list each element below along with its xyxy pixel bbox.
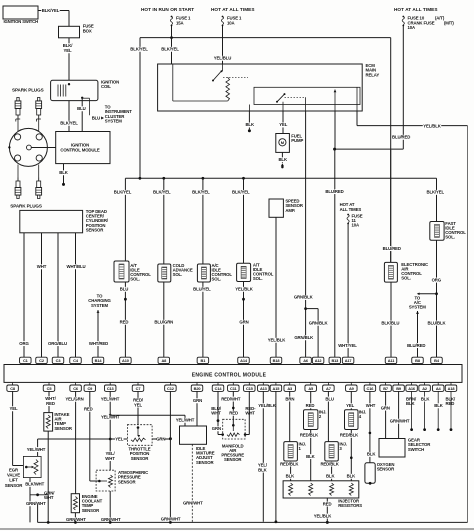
wire drop2 BLK/YEL to cold advance sol (153, 178, 171, 264)
svg-text:SOL.: SOL. (401, 276, 411, 281)
svg-text:WHT/YEL: WHT/YEL (338, 343, 357, 348)
connector A4 (432, 382, 444, 391)
wire TDC-1 ORG to C1 (19, 233, 29, 357)
svg-text:GRN: GRN (156, 437, 165, 442)
svg-text:C11: C11 (230, 386, 237, 391)
wire coolant sensor GRN/WHT to bus (66, 513, 86, 523)
wire coil to ICM BLK/YEL (60, 101, 78, 132)
wire ICM ground BLK (59, 164, 68, 186)
wire INJ2 out RED/BLK BLK (300, 430, 319, 481)
connector B1 (197, 357, 209, 364)
fast idle control solenoid SOL6 (430, 221, 466, 240)
intake air temp sensor R1 (44, 412, 73, 431)
wire relay to GRN/BLK column (305, 111, 307, 178)
distributor (8, 128, 47, 166)
wire C8 YEL to EGR (9, 391, 23, 465)
connector A11 (385, 357, 397, 364)
fuse F1 15A (170, 16, 191, 27)
svg-text:BLK: BLK (258, 467, 267, 472)
connector C14 (212, 382, 224, 391)
EGR valve lift sensor U5 (5, 456, 41, 488)
wire fuse2 to relay YEL/BLU (213, 38, 231, 64)
svg-text:BLU: BLU (92, 115, 100, 120)
spark plug P4 (36, 178, 42, 199)
svg-text:YEL/WHT: YEL/WHT (101, 397, 120, 402)
svg-text:SENSOR: SENSOR (224, 457, 242, 462)
injector INJ4 (345, 410, 367, 430)
wire SOL1 to A10 BLU RED (120, 282, 129, 357)
wire C11 RED/WHT RED to MAP (221, 391, 241, 425)
connector C5 (43, 382, 55, 391)
fuse F10 crank (402, 16, 454, 31)
connector A13 (258, 382, 270, 391)
wire fuse10 down (392, 26, 411, 149)
atmospheric pressure sensor U6 (96, 470, 148, 491)
svg-text:YEL/WHT: YEL/WHT (176, 418, 195, 423)
svg-text:YEL: YEL (64, 48, 72, 53)
wire top bus (140, 26, 391, 39)
svg-text:WHT: WHT (211, 411, 221, 416)
title hot at all times (fuse 10) (394, 7, 438, 12)
wire A13 YEL/BLK to bus (257, 391, 277, 521)
connector C3 (52, 357, 64, 364)
connector B7 (380, 382, 392, 391)
wire ATM sensor GRN/WHT to bus (101, 491, 121, 522)
svg-text:SPARK PLUGS: SPARK PLUGS (12, 88, 44, 93)
svg-text:A13: A13 (260, 386, 268, 391)
svg-text:SENSOR: SENSOR (377, 467, 395, 472)
wire coil BLU to ICM (77, 97, 89, 132)
svg-text:RED: RED (229, 411, 238, 416)
svg-text:BLK/YEL: BLK/YEL (42, 8, 60, 13)
wire branch to AC system (409, 292, 437, 309)
svg-text:GRN/WHT: GRN/WHT (26, 501, 46, 506)
wire A15 to bus (275, 391, 277, 521)
svg-text:10A: 10A (227, 21, 235, 26)
svg-text:RED/BLK: RED/BLK (320, 461, 339, 466)
connector C15 (244, 382, 256, 391)
wire idle mixture GRN/WHT to bus (183, 444, 203, 522)
wire resistors RED YEL/BLK to bus (313, 498, 332, 524)
svg-text:YEL: YEL (10, 406, 18, 411)
svg-text:YEL/BLK: YEL/BLK (314, 513, 333, 518)
wire EGR bottom BLK/WHT GRN/WHT (25, 478, 55, 523)
svg-text:SENSOR: SENSOR (5, 483, 23, 488)
svg-text:A14: A14 (240, 358, 248, 363)
solenoid A/C idle control SOL3 (197, 263, 232, 282)
wire B8 to AC system BLU/RED (407, 311, 425, 357)
svg-text:YEL/BLK: YEL/BLK (423, 123, 442, 128)
svg-text:C14: C14 (215, 386, 223, 391)
svg-text:RELAY: RELAY (366, 72, 380, 77)
wire C6 YEL/GRN to coolant sensor (65, 391, 83, 493)
wire bus right drop (390, 38, 392, 263)
manifold air pressure sensor U9 (221, 419, 246, 462)
svg-text:A16: A16 (408, 386, 416, 391)
svg-text:YEL/BLK: YEL/BLK (268, 338, 287, 343)
wire drop1 BLK/YEL to AT idle sol (113, 178, 131, 261)
svg-text:YEL/BLU: YEL/BLU (214, 56, 232, 61)
svg-text:PUMP: PUMP (291, 138, 303, 143)
svg-text:BLK: BLK (406, 401, 415, 406)
svg-text:SENSOR: SENSOR (82, 508, 100, 513)
svg-text:HOT AT ALL TIMES: HOT AT ALL TIMES (211, 7, 255, 12)
svg-text:C16: C16 (367, 386, 375, 391)
wire bus left drop BLK/YEL (130, 38, 148, 179)
connector B18 (270, 357, 282, 364)
svg-text:C15: C15 (246, 386, 254, 391)
svg-text:A15: A15 (273, 386, 281, 391)
wire TDC-2 WHT to C2 (37, 233, 47, 357)
wire fuel pump ground BLK (278, 152, 287, 168)
ignition switch (3, 6, 38, 24)
svg-text:BLK: BLK (347, 474, 356, 479)
svg-text:RED/WHT: RED/WHT (221, 396, 241, 401)
svg-text:BRN: BRN (285, 396, 294, 401)
wire A7 BLU to INJ3 (325, 391, 333, 441)
svg-text:AMP.: AMP. (285, 208, 295, 213)
svg-text:YEL: YEL (134, 402, 142, 407)
svg-text:BLK: BLK (59, 170, 68, 175)
svg-text:GRN/WHT: GRN/WHT (161, 517, 181, 522)
idle mixture adjust sensor U8 (180, 426, 215, 465)
svg-text:WHT/BLU: WHT/BLU (67, 264, 86, 269)
svg-text:BOX: BOX (83, 28, 92, 33)
svg-text:GRN/WHT: GRN/WHT (390, 418, 410, 423)
svg-text:SENSOR: SENSOR (131, 456, 149, 461)
svg-text:RED: RED (120, 320, 129, 325)
svg-text:ALL TIMES: ALL TIMES (340, 207, 362, 212)
svg-text:BLK/YEL: BLK/YEL (192, 190, 210, 195)
fuse F11 10A (347, 214, 363, 228)
throttle position sensor U7 (127, 425, 152, 461)
title hot at all times (fuse 11) (340, 202, 362, 212)
svg-text:BLU/RED: BLU/RED (407, 343, 425, 348)
svg-text:SENSOR: SENSOR (86, 227, 104, 232)
svg-text:BLU/BLK: BLU/BLK (427, 320, 446, 325)
svg-text:BLU/GRN: BLU/GRN (154, 320, 173, 325)
wire SOL4 to A14 YEL/BLK GRN (235, 282, 254, 358)
svg-text:B7: B7 (383, 386, 388, 391)
wire INJ4 out RED/BLK BLK (340, 430, 359, 481)
svg-text:WHT: WHT (44, 495, 54, 500)
spark plug P1 (15, 98, 21, 122)
connector A14 (238, 357, 250, 364)
wire C13 YEL/WHT down (101, 391, 120, 470)
svg-text:WHT: WHT (245, 411, 255, 416)
connector A15 (270, 382, 282, 391)
wire A3 BRN to INJ1 (285, 391, 294, 441)
connector A10 (120, 357, 131, 364)
svg-text:RED: RED (46, 401, 55, 406)
svg-text:YEL/BLK: YEL/BLK (258, 403, 277, 408)
connector A5 (305, 382, 317, 391)
svg-text:GRN: GRN (193, 398, 202, 403)
connector A17 (342, 357, 354, 364)
wire sensor ref line YEL (38, 437, 128, 442)
svg-text:YEL/GRN: YEL/GRN (65, 397, 83, 402)
connector B4 (431, 357, 443, 364)
svg-text:SENSOR: SENSOR (54, 426, 72, 431)
svg-text:A10: A10 (122, 358, 129, 363)
wire ignition switch to fuse box BLK/YEL (38, 8, 69, 26)
connector C13 (104, 382, 116, 391)
svg-text:SOL.: SOL. (445, 235, 455, 240)
wire C15 RED/WHT to MAP right (245, 391, 256, 434)
connector A6 (300, 357, 312, 364)
wire B9 GRN/WHT to gear selector (390, 391, 410, 438)
svg-text:BLK/YEL: BLK/YEL (427, 190, 445, 195)
wire ground bus GRN/WHT (38, 505, 468, 524)
gear selector switch S1 (379, 438, 431, 458)
svg-text:SYSTEM: SYSTEM (409, 305, 426, 310)
svg-text:A7: A7 (326, 386, 331, 391)
svg-text:YEL: YEL (279, 122, 287, 127)
svg-text:SOL.: SOL. (212, 277, 222, 282)
spark plugs label bottom (10, 204, 42, 209)
solenoid cold advance SOL2 (158, 263, 193, 282)
svg-text:10A: 10A (352, 223, 360, 228)
svg-text:RED/BLK: RED/BLK (340, 433, 359, 438)
svg-text:(M/T): (M/T) (444, 20, 454, 25)
connector C7 (132, 382, 144, 391)
connector B8 (412, 357, 424, 364)
svg-text:SYSTEM: SYSTEM (105, 119, 122, 124)
svg-text:WHT: WHT (366, 403, 376, 408)
connector A8 (158, 357, 170, 364)
connector C8 (7, 382, 19, 391)
wire BLU/RED mid (325, 149, 343, 357)
wire speed sensor to B18 YEL/BLK (267, 217, 286, 357)
svg-text:ORG: ORG (19, 341, 29, 346)
svg-text:SOL.: SOL. (253, 276, 263, 281)
svg-text:GRN/BLK: GRN/BLK (294, 295, 314, 300)
svg-text:BLU/RED: BLU/RED (325, 189, 343, 194)
engine control module ECM (4, 365, 462, 383)
wire relay YEL/BLK out (357, 111, 468, 522)
svg-text:B20: B20 (194, 386, 201, 391)
svg-text:HOT AT ALL TIMES: HOT AT ALL TIMES (394, 7, 438, 12)
svg-text:BLK/YEL: BLK/YEL (130, 47, 148, 52)
svg-text:SYSTEM: SYSTEM (91, 303, 108, 308)
svg-text:BLK: BLK (286, 474, 295, 479)
svg-text:SOL.: SOL. (130, 277, 140, 282)
wire SOL5 to A11 BLK/BLU (381, 282, 399, 357)
wire to charging system WHT/RED to B14 (88, 294, 111, 358)
connector C16 (364, 382, 376, 391)
wire C12 GRN/WHT down to bus (161, 391, 181, 522)
wire GRN/BLK branch to A12 (306, 309, 329, 358)
wire INJ1 out RED/BLK BLK (280, 461, 299, 481)
wire GRN/BLK to A6 (294, 178, 314, 357)
wire intake sensor down to ground bus (47, 431, 49, 522)
svg-text:BLK/YEL: BLK/YEL (114, 190, 132, 195)
svg-text:BLK: BLK (245, 122, 254, 127)
wire C13 branch to idle mixture (110, 415, 195, 426)
svg-text:WHT: WHT (37, 264, 47, 269)
engine coolant temp sensor R2 (71, 494, 102, 513)
connector C11 (228, 382, 240, 391)
svg-text:B18: B18 (273, 358, 281, 363)
connector A3 (284, 382, 296, 391)
svg-text:BLK: BLK (278, 157, 287, 162)
svg-text:RED: RED (84, 407, 93, 412)
svg-text:BLK: BLK (367, 452, 376, 457)
wire INJ3 out RED/BLK BLK (320, 461, 339, 481)
svg-text:YEL: YEL (346, 403, 354, 408)
wire TDC-3 ORG/BLU to C3 (48, 233, 67, 357)
connector A12 (312, 357, 324, 364)
wire relay YEL to fuel pump (279, 111, 288, 134)
wire A9 YEL to INJ4 (346, 391, 355, 409)
wire drop4 BLK/YEL to AT idle sol 2 (232, 178, 250, 263)
svg-text:C12: C12 (167, 386, 175, 391)
spark plug P3 (15, 178, 21, 199)
wire EGR top YEL/WHT (27, 439, 46, 456)
connector C12 (165, 382, 177, 391)
wire C16 WHT BLK to oxygen sensor (366, 391, 377, 462)
connector A16 (406, 382, 418, 391)
connector A7 (323, 382, 335, 391)
svg-text:BLK: BLK (326, 474, 335, 479)
fuel pump M1 (276, 133, 304, 152)
connector B9 (393, 382, 405, 391)
svg-text:SOL.: SOL. (173, 272, 183, 277)
svg-text:BLK/YEL: BLK/YEL (161, 47, 179, 52)
wire BLU/RED long down (383, 150, 401, 262)
wire C7 RED/YEL to TPS (133, 391, 144, 428)
svg-text:WHT: WHT (105, 456, 115, 461)
connector C6 (70, 382, 82, 391)
svg-text:GRN: GRN (381, 405, 390, 410)
svg-text:BLK: BLK (306, 454, 315, 459)
svg-text:A18: A18 (448, 386, 456, 391)
svg-text:ORG: ORG (432, 277, 442, 282)
ECM main relay K1 (158, 63, 380, 111)
svg-text:SENSOR: SENSOR (196, 460, 214, 465)
connector A18 (445, 382, 457, 391)
connector B14 (92, 357, 104, 364)
svg-text:C13: C13 (107, 386, 115, 391)
speed sensor amp U3 (269, 199, 304, 218)
wire C5 WHT/RED to intake air temp sensor (45, 391, 57, 412)
fuse box (59, 24, 94, 38)
wire plugs to distributor (18, 119, 39, 131)
wire stub to instrument cluster BLU (92, 105, 133, 124)
spark plug P2 (36, 98, 42, 122)
svg-text:B14: B14 (95, 358, 103, 363)
svg-text:BLK/YEL: BLK/YEL (153, 190, 171, 195)
svg-text:C7: C7 (136, 386, 141, 391)
svg-text:IGNITION SWITCH: IGNITION SWITCH (4, 19, 39, 24)
svg-text:A11: A11 (388, 358, 395, 363)
svg-text:RED: RED (446, 401, 455, 406)
svg-text:RED: RED (306, 403, 315, 408)
wire TPS GRN to C12 wire (152, 437, 172, 442)
svg-text:ENGINE CONTROL MODULE: ENGINE CONTROL MODULE (192, 372, 267, 378)
svg-text:A12: A12 (315, 358, 323, 363)
wire relay BLK ground dot (245, 111, 254, 132)
svg-text:BLK/WHT: BLK/WHT (25, 482, 44, 487)
bottom border (0, 528, 474, 530)
spark plugs label top (12, 88, 44, 93)
ignition coil U1 (51, 80, 120, 101)
top dead center sensor U4 (20, 209, 109, 233)
wire TDC-4 WHT/BLU to C4 (67, 233, 86, 357)
svg-text:ORG/BLU: ORG/BLU (48, 341, 67, 346)
svg-text:GRN/BLK: GRN/BLK (294, 335, 314, 340)
svg-text:BLK/BLU: BLK/BLU (381, 320, 399, 325)
svg-text:SENSOR: SENSOR (118, 479, 136, 484)
wire A4 BLK stub (434, 391, 443, 431)
connector B20 (191, 382, 203, 391)
svg-text:COIL: COIL (101, 84, 111, 89)
solenoid A/T idle control SOL1 (114, 261, 151, 282)
svg-text:WHT/RED: WHT/RED (89, 341, 108, 346)
wire SOL6 to B4 ORG BLU/BLK (427, 240, 446, 357)
fuse F2 10A (221, 16, 242, 27)
oxygen sensor U10 (365, 462, 395, 485)
svg-text:BLK: BLK (434, 403, 443, 408)
svg-text:SWITCH: SWITCH (408, 447, 424, 452)
svg-text:BLK/YEL: BLK/YEL (232, 190, 250, 195)
svg-text:BLU: BLU (325, 396, 333, 401)
svg-text:15A: 15A (176, 21, 184, 26)
wire B7 GRN to gear selector (381, 391, 390, 438)
connector B13 (329, 357, 341, 364)
wire fuse1 to relay BLK/YEL (161, 38, 179, 64)
wire fuse box to ignition coil BLK/YEL (62, 38, 73, 81)
wire SOL2 to A8 BLU/GRN (154, 282, 173, 357)
injector INJ3 (325, 441, 347, 461)
svg-text:BLK: BLK (421, 396, 430, 401)
svg-text:BLU: BLU (120, 287, 128, 292)
svg-text:CONTROL MODULE: CONTROL MODULE (60, 147, 100, 152)
wire distributor to ICM (31, 147, 55, 149)
electronic air control solenoid SOL5 (384, 262, 428, 282)
wire A2 BLK stub (421, 391, 430, 431)
wire SOL3 to B1 BLU/YEL (193, 282, 211, 357)
svg-text:B13: B13 (331, 358, 339, 363)
wire C14 BLU/WHT to MAP (211, 391, 222, 434)
svg-text:RED/BLK: RED/BLK (280, 461, 299, 466)
svg-text:BLU/RED: BLU/RED (383, 246, 401, 251)
svg-text:BLU/YEL: BLU/YEL (193, 287, 211, 292)
svg-text:BLK/YEL: BLK/YEL (60, 121, 78, 126)
svg-text:GRN/WHT: GRN/WHT (183, 501, 203, 506)
title hot at all times (fuse 1) (211, 7, 255, 12)
svg-text:RED: RED (323, 501, 332, 506)
svg-text:SPARK PLUGS: SPARK PLUGS (10, 204, 42, 209)
wire A18 BLK/RED stub (446, 391, 456, 431)
wire A5 RED to INJ2 (306, 391, 315, 409)
svg-text:RESISTORS: RESISTORS (338, 503, 362, 508)
svg-text:YEL/BLK: YEL/BLK (235, 287, 254, 292)
solenoid A/T idle control SOL4 (237, 263, 274, 282)
svg-text:BLU/RED: BLU/RED (392, 135, 410, 140)
wire node149 horizontal (333, 148, 403, 151)
svg-text:BLU: BLU (77, 106, 85, 111)
ignition control module U2 (56, 132, 110, 164)
svg-text:10A: 10A (408, 25, 416, 30)
svg-text:GRN/BLK: GRN/BLK (309, 321, 329, 326)
wire relay pin to node149 (334, 111, 336, 149)
injector INJ2 (304, 410, 327, 430)
svg-text:YEL: YEL (115, 437, 123, 442)
connector A9 (346, 382, 358, 391)
wire mid bus BLK/YEL (125, 177, 436, 180)
injector INJ1 (284, 441, 306, 461)
